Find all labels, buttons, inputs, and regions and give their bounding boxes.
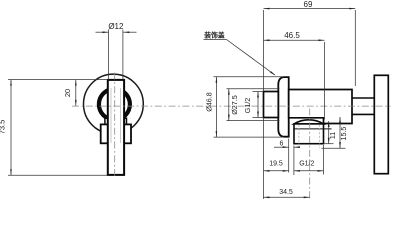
inlet nipple G1/2 xyxy=(264,92,279,118)
outlet hidden bore lines xyxy=(298,125,300,149)
svg-text:Ø12: Ø12 xyxy=(108,22,124,31)
svg-text:15.5: 15.5 xyxy=(341,127,348,141)
svg-text:Ø27.5: Ø27.5 xyxy=(230,95,239,115)
dim dia12 xyxy=(108,30,110,80)
valve body xyxy=(289,90,352,124)
dim 20 xyxy=(75,80,77,106)
dim 46.5 xyxy=(324,42,326,120)
dim 6 xyxy=(288,139,290,173)
dim dia27.5 xyxy=(227,88,280,90)
escutcheon flange xyxy=(278,77,288,137)
dim 69 xyxy=(263,10,265,91)
dim G1/2 outlet xyxy=(323,145,325,175)
svg-text:34.5: 34.5 xyxy=(279,189,293,196)
dim G1/2 inlet xyxy=(253,91,264,93)
svg-text:46.5: 46.5 xyxy=(284,31,300,40)
svg-text:69: 69 xyxy=(304,0,313,9)
dim 34.5 xyxy=(264,196,310,198)
hidden stem bore lines xyxy=(110,88,112,143)
main horizontal centerline xyxy=(72,105,391,107)
dim 15.5 xyxy=(322,147,346,149)
dim 73.5 xyxy=(8,79,108,81)
outer circle (cover) xyxy=(84,74,144,134)
dim 11 xyxy=(324,143,334,145)
wall stem xyxy=(352,97,374,99)
handle ring xyxy=(99,89,130,120)
wall plate xyxy=(374,75,388,173)
bracket xyxy=(101,124,131,143)
outlet step line xyxy=(293,128,331,130)
outlet vertical centerline xyxy=(309,109,311,199)
outlet tube xyxy=(294,124,324,144)
svg-text:6: 6 xyxy=(280,141,284,148)
svg-text:20: 20 xyxy=(63,89,72,97)
svg-text:11: 11 xyxy=(330,132,337,139)
svg-text:G1/2: G1/2 xyxy=(299,161,314,168)
svg-text:G1/2: G1/2 xyxy=(243,98,252,114)
sleeve xyxy=(105,118,127,124)
svg-text:装饰盖: 装饰盖 xyxy=(204,30,225,39)
dim dia46.8 xyxy=(214,76,284,78)
handle lever xyxy=(108,80,124,175)
left view vertical centerline xyxy=(114,73,116,177)
svg-text:19.5: 19.5 xyxy=(269,161,283,168)
svg-text:Ø46.8: Ø46.8 xyxy=(205,92,214,112)
outlet dome xyxy=(294,120,324,124)
svg-text:73.5: 73.5 xyxy=(0,120,7,135)
dim 19.5 xyxy=(263,119,265,200)
